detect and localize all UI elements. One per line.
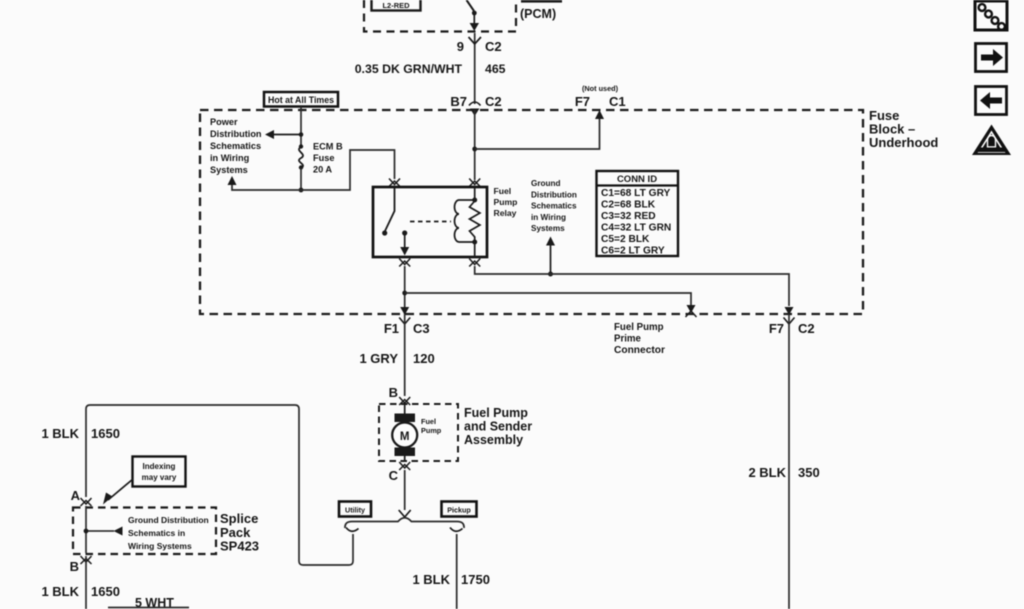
node C label (389, 468, 399, 483)
splice pack SP423 label (220, 511, 259, 554)
svg-text:C2=68 BLK: C2=68 BLK (601, 200, 656, 211)
splice wire through SP423 (84, 506, 89, 553)
arrow from wire to Power Distribution note (265, 130, 303, 139)
svg-text:C1: C1 (609, 94, 626, 109)
svg-text:C4=32 LT GRN: C4=32 LT GRN (601, 223, 671, 234)
svg-text:465: 465 (485, 62, 506, 76)
wire stub to F7 C1 not used (475, 110, 604, 149)
fuel pump prime connector label (614, 322, 665, 356)
svg-text:1 GRY: 1 GRY (359, 351, 398, 366)
connector symbol at splice node A (81, 498, 92, 506)
svg-text:Splice: Splice (220, 511, 258, 526)
svg-text:C6=2 LT GRY: C6=2 LT GRY (601, 246, 665, 257)
splice note Ground Distribution Schematics in Wiring Systems (128, 515, 209, 551)
svg-text:1 BLK: 1 BLK (41, 426, 79, 441)
svg-text:ECM B: ECM B (313, 142, 343, 152)
connector labels F7 / C1 (not used) (575, 84, 626, 109)
CONN ID table (597, 171, 679, 257)
fuse block underhood boundary (dashed) (200, 110, 863, 314)
arrow ground distribution note in splice (86, 527, 123, 536)
wire pickup branch 1 BLK 1750 to bottom of page (412, 534, 489, 609)
svg-text:Underhood: Underhood (869, 135, 938, 150)
svg-text:may vary: may vary (142, 473, 177, 482)
wire B7 down to relay coil pin (472, 110, 477, 180)
svg-text:Relay: Relay (494, 208, 517, 218)
svg-text:1650: 1650 (91, 584, 120, 599)
svg-text:Systems: Systems (210, 165, 248, 175)
svg-text:Ground: Ground (531, 179, 561, 188)
PCM module box (dashed, cut off at top) (364, 0, 516, 32)
svg-text:(Not used): (Not used) (582, 84, 619, 93)
arrow Ground Distribution note down to wire (546, 237, 555, 277)
svg-text:Fuel: Fuel (494, 186, 512, 196)
icon chain links button (975, 1, 1007, 30)
svg-text:Distribution: Distribution (531, 190, 577, 199)
node B label (splice) (70, 559, 79, 574)
svg-text:C2: C2 (485, 94, 502, 109)
connector labels B7 / C2 (450, 94, 501, 109)
svg-text:A: A (71, 488, 81, 503)
svg-text:L2-RED: L2-RED (382, 1, 410, 10)
svg-text:(PCM): (PCM) (520, 7, 556, 21)
fuel pump assembly label (464, 406, 532, 447)
svg-text:Fuse: Fuse (313, 153, 334, 163)
PCM cut-off title text fragment (521, 0, 562, 3)
svg-text:Schematics: Schematics (210, 141, 261, 151)
svg-text:C2: C2 (485, 39, 502, 54)
svg-text:Schematics: Schematics (531, 202, 577, 211)
svg-text:SP423: SP423 (220, 539, 259, 554)
splice pack SP423 box (dashed) (73, 508, 216, 555)
fuel pump and sender assembly box (dashed) (379, 404, 458, 461)
connector entry symbol at B7 (469, 102, 481, 116)
svg-text:0.35 DK GRN/WHT: 0.35 DK GRN/WHT (355, 62, 463, 76)
relay actuator dashed link (410, 221, 451, 223)
Utility box (339, 502, 371, 517)
connector symbol below relay coil pin (469, 259, 480, 267)
svg-text:Power: Power (210, 117, 238, 127)
svg-text:C3=32 RED: C3=32 RED (601, 211, 656, 222)
wire branch with up arrow to Power Distribution note (228, 176, 302, 190)
svg-text:9: 9 (457, 39, 464, 54)
wire fuel pump ground from C to option fork (399, 470, 411, 517)
wire PCM pin 9 to fuse block B7 (474, 33, 476, 104)
connector exit symbol and labels F1 C3 (384, 307, 430, 336)
svg-text:C3: C3 (413, 321, 430, 336)
arrow from indexing note to node A (103, 479, 133, 505)
svg-text:F7: F7 (769, 321, 784, 336)
PCM connector label box L2-RED (372, 0, 421, 11)
connector symbol at fuel pump pin C (399, 462, 410, 470)
relay coil (455, 187, 480, 245)
relay box fuel pump relay (373, 187, 487, 257)
svg-text:Assembly: Assembly (464, 433, 523, 447)
svg-text:Wiring Systems: Wiring Systems (128, 541, 192, 551)
fuse label ECM B Fuse 20 A (313, 142, 343, 175)
option fork bus (345, 518, 464, 528)
fuse ECM B 20 A symbol (299, 144, 303, 169)
svg-text:Schematics in: Schematics in (128, 528, 185, 538)
icon back arrow button (976, 87, 1007, 115)
svg-text:B7: B7 (450, 94, 467, 109)
svg-text:F7: F7 (575, 94, 590, 109)
svg-text:Pickup: Pickup (447, 506, 471, 515)
connector symbol at fuel pump pin B (399, 397, 410, 405)
connector symbol at relay coil top pin (469, 179, 480, 187)
icon caution triangle (972, 125, 1011, 156)
svg-text:Systems: Systems (531, 224, 565, 233)
wire branch to fuel pump prime connector (405, 293, 697, 317)
svg-text:F1: F1 (384, 321, 399, 336)
svg-text:C: C (389, 468, 399, 483)
note Ground Distribution Schematics (fuse block) (531, 179, 577, 233)
svg-text:Hot at All Times: Hot at All Times (268, 95, 334, 105)
svg-text:in Wiring: in Wiring (210, 153, 249, 163)
fuse block label (869, 108, 938, 150)
wire relay coil pin to F7 C2 ground (475, 266, 789, 306)
relay label Fuel Pump Relay (494, 186, 518, 218)
wire fuse bottom to junction (299, 168, 304, 192)
svg-text:M: M (400, 431, 410, 443)
wire 1 BLK 1650 lower to bottom of page (41, 556, 119, 609)
Indexing may vary box (133, 457, 186, 487)
svg-text:Ground Distribution: Ground Distribution (128, 515, 209, 525)
connector symbol at relay switch top pin (389, 179, 400, 187)
wire Hot at All Times down to fuse (300, 107, 302, 146)
node B label (fuel pump) (389, 385, 398, 400)
connector symbol below relay switch pin (399, 259, 410, 267)
svg-text:20 A: 20 A (313, 165, 332, 175)
wire relay switch pin down to F1 junction (402, 266, 407, 314)
svg-text:Pump: Pump (421, 426, 442, 435)
svg-text:CONN ID: CONN ID (617, 174, 657, 185)
svg-text:120: 120 (413, 351, 435, 366)
svg-text:Connector: Connector (614, 345, 665, 356)
svg-text:Distribution: Distribution (210, 129, 262, 139)
connector symbol at splice node B (81, 556, 92, 564)
svg-text:1 BLK: 1 BLK (41, 584, 79, 599)
svg-text:Utility: Utility (345, 506, 365, 515)
icon forward arrow button (976, 44, 1007, 72)
wire label 1 BLK 1650 (upper) (41, 426, 119, 441)
PCM name label (PCM) (520, 7, 556, 21)
svg-text:C5=2 BLK: C5=2 BLK (601, 234, 650, 245)
wire 2 BLK 350 to bottom of page (748, 314, 819, 609)
fuel pump motor M (392, 404, 417, 461)
svg-text:and Sender: and Sender (464, 420, 532, 434)
wire F1 C3 to fuel pump, label 1 GRY 120 (359, 314, 434, 396)
node A label (71, 488, 81, 503)
svg-text:Fuel Pump: Fuel Pump (614, 322, 664, 333)
svg-text:C2: C2 (798, 321, 815, 336)
wire fuse junction to relay switch pin (301, 150, 395, 190)
svg-text:B: B (389, 385, 398, 400)
svg-text:Prime: Prime (614, 334, 642, 345)
connector hook on utility branch (346, 528, 359, 532)
svg-text:CAUTION: CAUTION (981, 148, 1002, 153)
svg-text:2 BLK: 2 BLK (748, 465, 786, 480)
connector symbol at pin 9 (469, 37, 482, 44)
wire relay coil to bottom pin (474, 242, 476, 257)
connector hook on pickup branch (450, 528, 463, 532)
svg-text:1750: 1750 (461, 572, 490, 587)
wire utility branch loop to splice pack (86, 405, 353, 565)
svg-text:Indexing: Indexing (143, 462, 176, 471)
fuel pump small label (421, 417, 442, 435)
note Power Distribution Schematics in Wiring Systems (210, 117, 262, 175)
svg-text:1 BLK: 1 BLK (412, 572, 450, 587)
svg-text:350: 350 (798, 465, 820, 480)
Pickup box (442, 502, 477, 517)
connector exit symbol and labels F7 C2 (769, 307, 815, 336)
connector pin labels 9 / C2 (457, 39, 502, 54)
svg-text:in Wiring: in Wiring (531, 213, 566, 222)
relay switch contacts (382, 187, 409, 256)
svg-text:Pump: Pump (494, 197, 518, 207)
svg-text:Fuel Pump: Fuel Pump (464, 406, 528, 420)
svg-text:Fuel: Fuel (421, 417, 436, 426)
wire 5 WHT label and wire stub (108, 596, 189, 609)
wire label 0.35 DK GRN/WHT 465 (355, 62, 506, 76)
PCM internal driver switch with output arrow (467, 0, 480, 31)
svg-text:B: B (70, 559, 79, 574)
svg-text:1650: 1650 (91, 426, 120, 441)
Hot at All Times box (264, 92, 338, 107)
svg-text:C1=68 LT GRY: C1=68 LT GRY (601, 188, 671, 199)
